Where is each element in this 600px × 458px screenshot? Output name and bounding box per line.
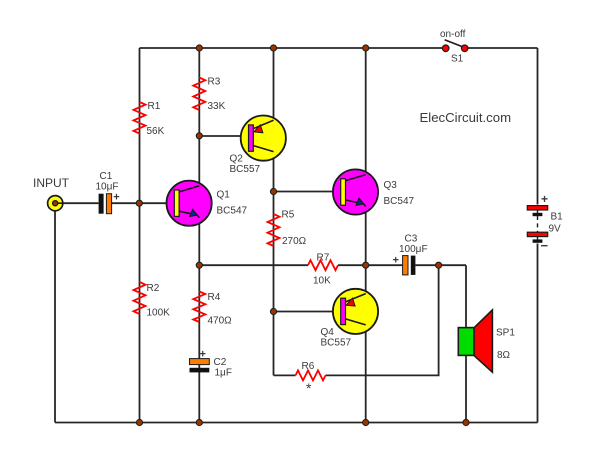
wire R6 left wire: [274, 374, 296, 376]
wire R3 branch bottom: [198, 218, 200, 423]
wire Q3 branch top: [365, 48, 367, 175]
resistor R2: [134, 282, 146, 314]
resistor R5: [268, 214, 280, 246]
svg-text:10K: 10K: [313, 276, 331, 287]
svg-text:10μF: 10μF: [96, 182, 119, 193]
svg-text:56K: 56K: [147, 126, 165, 137]
svg-text:100K: 100K: [147, 308, 171, 319]
capacitor C2: [190, 349, 210, 373]
resistor R4: [193, 292, 205, 323]
svg-text:BC547: BC547: [384, 196, 415, 207]
svg-text:33K: 33K: [208, 101, 226, 112]
switch S1: [442, 40, 468, 52]
node R5 top / Q3 base: [270, 188, 276, 194]
svg-text:R2: R2: [147, 283, 160, 294]
node C1 / R1 / Q1 base: [136, 200, 142, 206]
svg-text:S1: S1: [451, 54, 464, 65]
transistor Q1: [167, 181, 212, 226]
svg-text:*: *: [306, 380, 312, 396]
svg-text:100μF: 100μF: [399, 244, 428, 255]
wire input jack ground drop: [54, 211, 56, 423]
wire bottom rail: [55, 422, 538, 424]
svg-text:BC547: BC547: [217, 206, 248, 217]
svg-text:R4: R4: [208, 292, 221, 303]
resistor R3: [193, 78, 205, 111]
node C3 out / R6: [436, 262, 442, 268]
capacitor C1: [99, 192, 120, 214]
svg-text:SP1: SP1: [496, 328, 515, 339]
svg-text:−: −: [541, 238, 549, 253]
svg-text:270Ω: 270Ω: [282, 236, 307, 247]
input jack J1: [48, 196, 63, 211]
wire Q2 branch bottom: [273, 152, 275, 376]
wire top rail left section: [140, 47, 443, 49]
wire Q2 branch top: [273, 48, 275, 120]
svg-text:BC557: BC557: [321, 338, 352, 349]
wire R3 branch top: [198, 48, 200, 186]
svg-text:Q3: Q3: [384, 180, 398, 191]
svg-text:470Ω: 470Ω: [208, 316, 233, 327]
svg-text:R3: R3: [208, 77, 221, 88]
speaker SP1: [458, 310, 492, 372]
node R7 / C3 / Q3 emitter: [363, 262, 369, 268]
wire Q3 base wire: [274, 191, 341, 193]
wire feedback drop from C3 node: [326, 265, 439, 375]
resistor R1: [134, 102, 146, 134]
svg-text:B1: B1: [551, 212, 564, 223]
node top rail / Q2: [270, 45, 276, 51]
svg-text:BC557: BC557: [230, 164, 261, 175]
wire Q4 branch bottom: [365, 324, 367, 422]
svg-text:R5: R5: [282, 210, 295, 221]
wire top rail right section: [468, 47, 538, 49]
wire C1 to Q1 base: [112, 202, 175, 204]
resistor R7: [308, 260, 338, 270]
svg-text:+: +: [113, 192, 119, 204]
battery B1: [527, 192, 548, 253]
wire R4 node to R7: [199, 264, 308, 266]
node Q4 base / R6: [270, 308, 276, 314]
svg-text:8Ω: 8Ω: [497, 350, 511, 361]
svg-text:C3: C3: [405, 234, 418, 245]
wire Q4 base wire: [274, 311, 342, 313]
svg-text:Q1: Q1: [217, 190, 231, 201]
node bottom rail / speaker: [463, 419, 469, 425]
capacitor C3: [393, 255, 416, 275]
transistor Q4: [333, 289, 378, 334]
svg-text:R7: R7: [317, 253, 330, 264]
wire R1-R2 branch: [139, 48, 141, 423]
svg-text:R6: R6: [302, 361, 315, 372]
resistor R6: [296, 370, 326, 380]
svg-text:INPUT: INPUT: [33, 176, 70, 190]
svg-text:+: +: [393, 255, 399, 267]
svg-text:R1: R1: [148, 101, 161, 112]
wire Q3-Q4 middle branch: [365, 208, 367, 295]
wire R7 to middle node: [338, 264, 402, 266]
node R4 top / R7: [196, 262, 202, 268]
svg-text:C2: C2: [214, 357, 227, 368]
svg-text:9V: 9V: [549, 224, 562, 235]
wire Q2 base wire: [199, 135, 249, 137]
wire C3 to output node: [416, 264, 467, 266]
wire input jack to C1: [63, 202, 99, 204]
transistor Q2: [241, 116, 286, 161]
svg-text:+: +: [200, 349, 206, 361]
transistor Q3: [333, 169, 378, 214]
wire output node to speaker: [465, 265, 467, 422]
node bottom rail / C2: [196, 419, 202, 425]
node bottom rail / R2: [136, 419, 142, 425]
node top rail / Q3: [363, 45, 369, 51]
svg-text:Q2: Q2: [230, 154, 244, 165]
svg-text:+: +: [541, 192, 548, 206]
wire battery - to bottom rail: [537, 244, 539, 423]
svg-text:1μF: 1μF: [215, 368, 232, 379]
svg-text:Q4: Q4: [321, 327, 335, 338]
svg-text:ElecCircuit.com: ElecCircuit.com: [420, 110, 512, 125]
node bottom rail / Q4: [363, 419, 369, 425]
node top rail / R3: [196, 45, 202, 51]
svg-text:on-off: on-off: [440, 29, 466, 40]
svg-text:C1: C1: [100, 171, 113, 182]
wire right edge to battery +: [537, 48, 539, 205]
node R3 / Q2 base: [196, 133, 202, 139]
